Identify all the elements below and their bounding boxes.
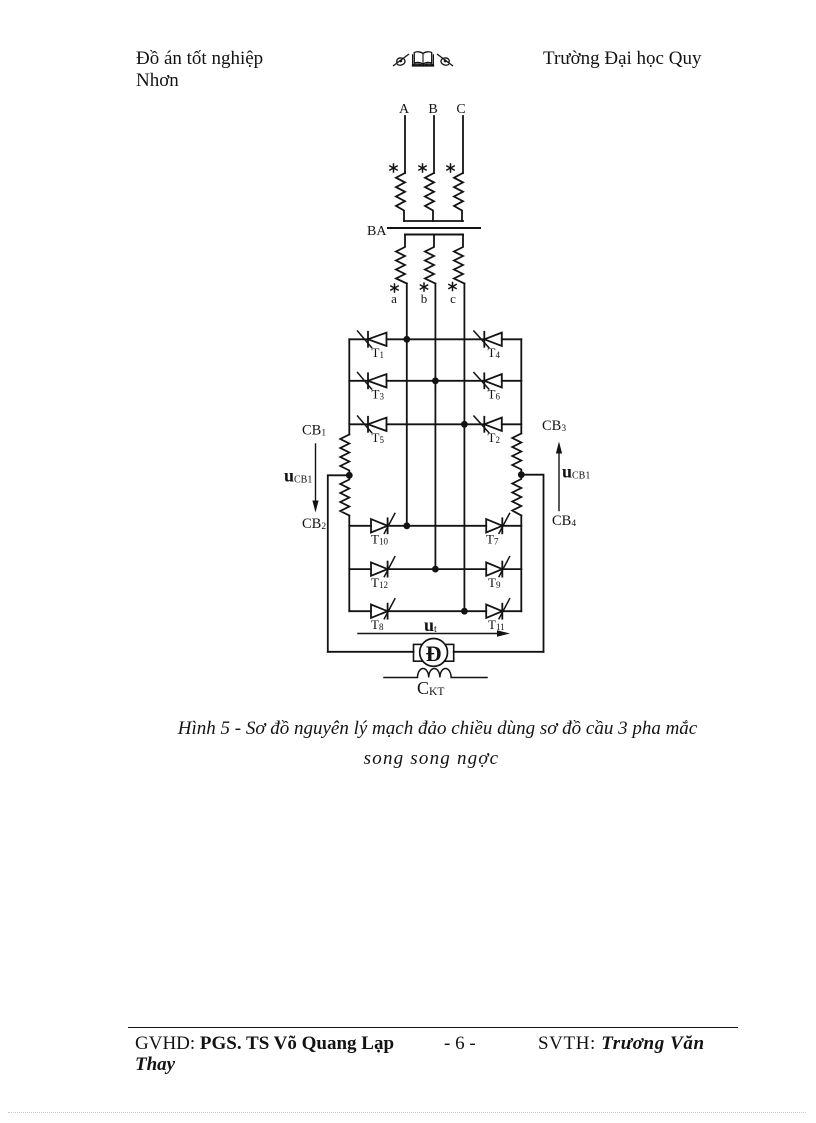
wire phase A input bbox=[404, 116, 406, 173]
right flourish bbox=[437, 54, 453, 66]
row 1 wires bbox=[349, 338, 521, 340]
transformer BA secondary winding b bbox=[425, 235, 435, 284]
resistor CB3 (upper right) bbox=[512, 434, 521, 475]
junction dot row2 phase b bbox=[432, 377, 439, 384]
svg-text:c: c bbox=[450, 291, 456, 306]
polarity mark primary A bbox=[390, 164, 397, 172]
wire secondary bus bbox=[405, 234, 463, 236]
junction dot row4 phase a bbox=[403, 522, 410, 529]
wire phase C input bbox=[462, 116, 464, 173]
row 3 wires bbox=[349, 423, 521, 425]
polarity mark primary C bbox=[447, 164, 454, 172]
bottom dotted separator bbox=[8, 1112, 806, 1113]
svg-text:b: b bbox=[421, 291, 428, 306]
row 4 wires bbox=[349, 525, 521, 527]
wire motor left lead bbox=[328, 651, 414, 653]
open book bbox=[412, 52, 434, 66]
svg-text:T6: T6 bbox=[488, 387, 501, 402]
header right text bbox=[543, 48, 701, 70]
header left text bbox=[136, 48, 263, 70]
footer SVTH text bbox=[538, 1033, 705, 1055]
thyristor T6 bbox=[474, 373, 502, 390]
svg-text:Đ: Đ bbox=[426, 641, 442, 666]
caption line 2 bbox=[169, 748, 694, 770]
svg-text:CB4: CB4 bbox=[552, 513, 576, 529]
footer wrapped word Thay bbox=[135, 1054, 175, 1076]
thyristor T1 bbox=[358, 331, 387, 348]
wire left output tap bbox=[328, 475, 350, 652]
thyristor T4 bbox=[474, 331, 502, 348]
transformer BA secondary winding a bbox=[396, 235, 407, 284]
svg-text:CKT: CKT bbox=[417, 678, 444, 698]
motor brush left bbox=[414, 644, 423, 661]
thyristor T7 bbox=[486, 513, 509, 533]
svg-text:T12: T12 bbox=[371, 575, 388, 590]
svg-text:T7: T7 bbox=[486, 532, 499, 547]
junction dot row1 phase a bbox=[403, 336, 410, 343]
header wrapped word Nhon bbox=[136, 70, 179, 92]
arrow uCB3 up bbox=[556, 442, 562, 511]
polarity mark secondary a bbox=[391, 284, 398, 292]
svg-text:BA: BA bbox=[367, 224, 387, 239]
wire motor right lead bbox=[454, 651, 544, 653]
field winding CKT bbox=[384, 668, 487, 677]
arrow uCB1 down bbox=[312, 444, 318, 513]
svg-text:uCB1: uCB1 bbox=[562, 462, 590, 482]
caption line 1 bbox=[175, 718, 700, 740]
svg-text:T10: T10 bbox=[371, 532, 388, 547]
transformer BA primary winding C bbox=[454, 173, 463, 221]
wire phase B input bbox=[433, 116, 435, 173]
footer rule bbox=[128, 1027, 738, 1028]
transformer BA secondary winding c bbox=[454, 235, 464, 284]
svg-text:ut: ut bbox=[424, 615, 437, 635]
resistor CB4 (lower right) bbox=[512, 475, 521, 516]
wire phase a to bridge bbox=[406, 284, 408, 526]
svg-text:T4: T4 bbox=[488, 345, 501, 360]
footer GVHD text bbox=[135, 1033, 394, 1055]
header book ornament bbox=[392, 48, 454, 70]
transformer BA primary winding A bbox=[396, 173, 405, 221]
resistor CB2 (lower left) bbox=[340, 475, 349, 515]
footer page number bbox=[444, 1033, 476, 1055]
svg-text:T8: T8 bbox=[371, 617, 384, 632]
svg-text:T1: T1 bbox=[372, 345, 384, 360]
transformer BA core line bbox=[388, 227, 480, 229]
resistor CB1 (upper left) bbox=[340, 435, 349, 476]
polarity mark secondary b bbox=[420, 283, 427, 291]
wire phase c to bridge bbox=[463, 284, 465, 612]
svg-text:T3: T3 bbox=[372, 387, 385, 402]
junction dot right divider bbox=[518, 471, 525, 478]
junction dot left divider bbox=[346, 472, 353, 479]
arrow ut output voltage bbox=[358, 630, 510, 636]
polarity mark primary B bbox=[419, 164, 426, 172]
wire right bus upper bbox=[520, 339, 522, 433]
thyristor T2 bbox=[474, 416, 502, 433]
junction dot row6 phase c bbox=[461, 608, 468, 615]
motor D circle bbox=[420, 639, 448, 667]
svg-text:T5: T5 bbox=[372, 430, 385, 445]
thyristor T9 bbox=[486, 557, 509, 577]
wire right bus lower bbox=[520, 516, 522, 612]
left flourish bbox=[393, 54, 409, 66]
svg-text:CB1: CB1 bbox=[302, 423, 326, 439]
wire phase b to bridge bbox=[434, 284, 436, 570]
row 2 wires bbox=[349, 380, 521, 382]
motor brush right bbox=[445, 644, 454, 661]
svg-text:CB2: CB2 bbox=[302, 516, 326, 532]
svg-text:a: a bbox=[391, 291, 397, 306]
svg-text:A: A bbox=[399, 102, 410, 117]
svg-text:C: C bbox=[456, 102, 465, 117]
thyristor T10 bbox=[371, 513, 395, 533]
wire right output tap bbox=[521, 475, 543, 652]
thyristor T8 bbox=[371, 599, 395, 619]
thyristor T5 bbox=[358, 416, 387, 433]
thyristor T12 bbox=[371, 557, 395, 577]
thyristor T3 bbox=[358, 373, 387, 390]
polarity mark secondary c bbox=[449, 283, 456, 291]
svg-text:uCB1: uCB1 bbox=[284, 466, 312, 486]
wire primary star bus bbox=[404, 220, 463, 222]
thyristor T11 bbox=[486, 599, 509, 619]
svg-text:CB3: CB3 bbox=[542, 418, 566, 434]
junction dot row5 phase b bbox=[432, 566, 439, 573]
row 6 wires bbox=[349, 610, 521, 612]
svg-text:B: B bbox=[428, 102, 437, 117]
svg-text:T2: T2 bbox=[488, 430, 500, 445]
transformer BA primary winding B bbox=[425, 173, 434, 221]
junction dot row3 phase c bbox=[461, 421, 468, 428]
wire left bus lower bbox=[348, 516, 350, 612]
wire left bus upper bbox=[348, 339, 350, 434]
row 5 wires bbox=[349, 568, 521, 570]
